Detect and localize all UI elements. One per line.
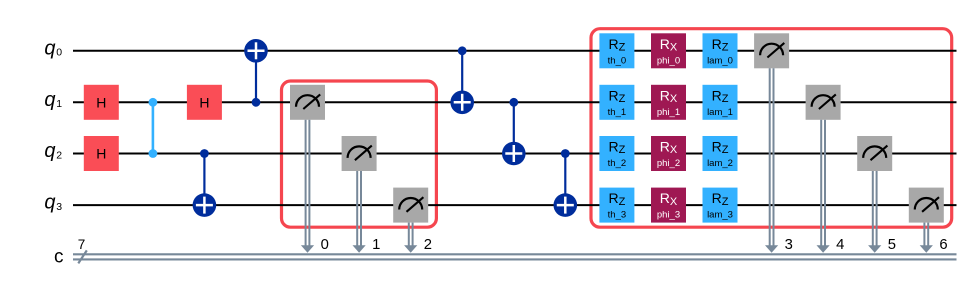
measure gate M2 on q3 — [393, 188, 428, 223]
classical register wire c (double line) — [73, 254, 957, 259]
svg-text:q: q — [44, 37, 55, 59]
measure gate M4 on q1 — [806, 85, 841, 120]
svg-text:lam_1: lam_1 — [707, 107, 733, 118]
svg-text:1: 1 — [56, 98, 62, 110]
svg-text:th_0: th_0 — [608, 55, 627, 66]
H gate H1 on q1 — [84, 85, 119, 120]
RX gate phi_2 on q2 — [651, 136, 686, 171]
svg-text:phi_3: phi_3 — [657, 210, 680, 221]
RZ gate lam_0 on q0 — [703, 33, 738, 68]
svg-text:0: 0 — [321, 237, 329, 253]
red highlight box 2 (u3 rotations + final measurement group) — [591, 29, 952, 228]
svg-text:H: H — [96, 94, 106, 110]
RZ gate lam_1 on q1 — [703, 85, 738, 120]
svg-text:5: 5 — [888, 237, 896, 253]
svg-text:th_3: th_3 — [608, 210, 627, 221]
svg-text:0: 0 — [56, 47, 62, 59]
svg-text:th_1: th_1 — [608, 107, 627, 118]
classical drop wire to bit 1 — [353, 171, 366, 253]
H gate H3 on q1 — [187, 85, 222, 120]
measure gate M0 on q1 — [290, 85, 325, 120]
RZ gate th_3 on q3 — [599, 188, 634, 223]
wire q1 — [73, 101, 957, 103]
classical drop wire to bit 4 — [817, 120, 830, 253]
RX gate phi_1 on q1 — [651, 85, 686, 120]
CNOT control q2 target q3 — [193, 149, 217, 217]
svg-text:3: 3 — [785, 237, 793, 253]
classical drop wire to bit 2 — [404, 223, 417, 253]
CNOT control q0 target q1 — [450, 46, 474, 114]
svg-text:6: 6 — [939, 237, 947, 253]
classical drop wire to bit 3 — [765, 68, 778, 253]
svg-text:q: q — [44, 89, 55, 111]
wire q0 — [73, 50, 957, 52]
svg-text:phi_0: phi_0 — [657, 55, 680, 66]
CNOT control q2 target q3 — [554, 149, 578, 217]
wire q2 — [73, 153, 957, 155]
RZ gate lam_2 on q2 — [703, 136, 738, 171]
CZ gate q1-q2 — [149, 98, 158, 158]
svg-text:lam_3: lam_3 — [707, 210, 733, 221]
svg-text:lam_2: lam_2 — [707, 158, 733, 169]
measure gate M5 on q2 — [857, 136, 892, 171]
svg-text:3: 3 — [56, 201, 62, 213]
classical drop wire to bit 6 — [920, 223, 933, 253]
svg-text:H: H — [96, 146, 106, 162]
RZ gate lam_3 on q3 — [703, 188, 738, 223]
svg-text:phi_2: phi_2 — [657, 158, 680, 169]
svg-text:lam_0: lam_0 — [707, 55, 733, 66]
classical register bundle slash — [78, 250, 87, 263]
svg-text:q: q — [44, 140, 55, 162]
wire q3 — [73, 204, 957, 206]
RX gate phi_3 on q3 — [651, 188, 686, 223]
measure gate M6 on q3 — [909, 188, 944, 223]
svg-text:2: 2 — [56, 149, 62, 161]
svg-text:q: q — [44, 192, 55, 214]
svg-text:phi_1: phi_1 — [657, 107, 680, 118]
CNOT control q1 target q0 — [244, 39, 268, 107]
red highlight box 1 (first measurement group) — [282, 81, 437, 227]
svg-text:7: 7 — [78, 237, 86, 252]
svg-text:4: 4 — [836, 237, 844, 253]
classical drop wire to bit 0 — [301, 120, 314, 253]
svg-text:c: c — [54, 247, 64, 268]
svg-text:H: H — [199, 94, 209, 110]
measure gate M3 on q0 — [754, 33, 789, 68]
classical drop wire to bit 5 — [868, 171, 881, 253]
H gate H2 on q2 — [84, 136, 119, 171]
svg-text:1: 1 — [372, 237, 380, 253]
CNOT control q1 target q2 — [502, 98, 526, 165]
svg-text:th_2: th_2 — [608, 158, 627, 169]
RX gate phi_0 on q0 — [651, 33, 686, 68]
RZ gate th_1 on q1 — [599, 85, 634, 120]
measure gate M1 on q2 — [342, 136, 377, 171]
RZ gate th_0 on q0 — [599, 33, 634, 68]
svg-text:2: 2 — [424, 237, 432, 253]
RZ gate th_2 on q2 — [599, 136, 634, 171]
